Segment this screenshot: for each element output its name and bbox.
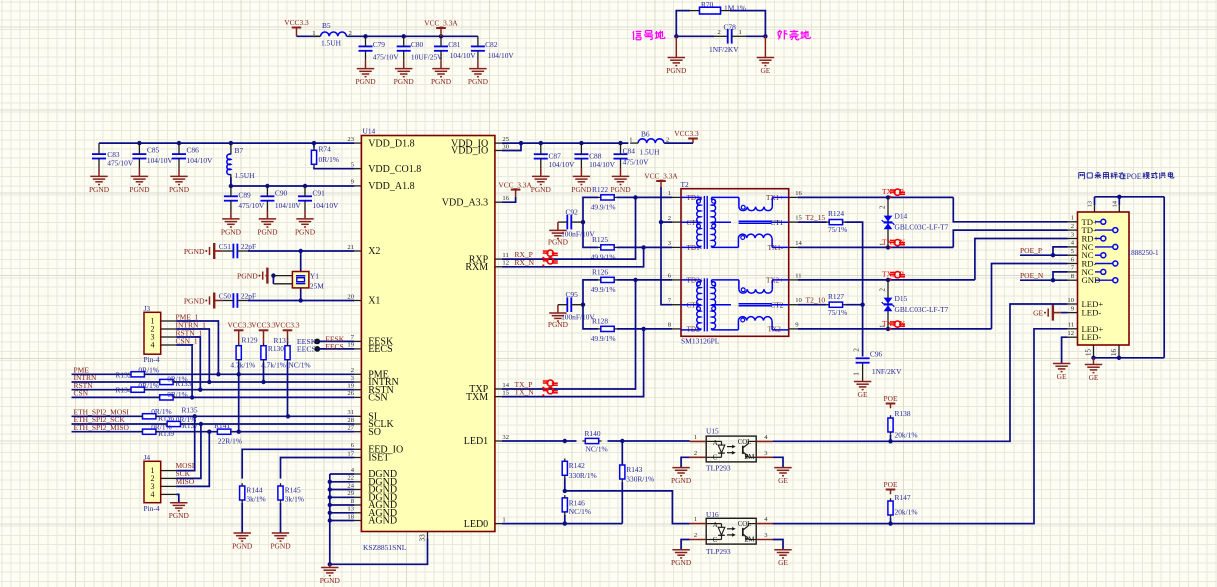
R145 value xyxy=(285,495,304,504)
svg-text:C91: C91 xyxy=(313,189,326,198)
PGND C79 label xyxy=(355,77,376,86)
C82 designator xyxy=(485,40,498,49)
svg-text:15: 15 xyxy=(1085,349,1093,357)
U14 pin name X2 xyxy=(368,246,380,257)
capacitor C95 xyxy=(558,297,583,312)
U14 pin name AGND xyxy=(368,516,397,527)
net label CSN port xyxy=(74,389,89,398)
wire CSN row xyxy=(72,396,355,398)
GE pin12 label xyxy=(1057,372,1067,381)
wire R138 to U15 pin4 wire xyxy=(890,435,892,442)
pin number 8 xyxy=(1071,273,1075,280)
J1 pin 16 stub xyxy=(1118,345,1120,358)
pin number 6 xyxy=(1071,256,1075,263)
junction gnd chain bottom node xyxy=(328,562,332,566)
svg-text:LED1: LED1 xyxy=(464,436,488,447)
GE C78 label xyxy=(760,66,770,75)
svg-text:PGND: PGND xyxy=(232,541,253,550)
net label RSTN port xyxy=(74,381,94,390)
U16 part number xyxy=(706,547,731,556)
svg-text:104/10V: 104/10V xyxy=(549,160,576,169)
pin number 26 xyxy=(347,390,354,397)
junction C89 node xyxy=(229,184,233,188)
ground GE C96 xyxy=(854,382,871,390)
svg-text:PGND: PGND xyxy=(257,227,278,236)
svg-text:PGND: PGND xyxy=(610,185,631,194)
svg-text:0R/1%: 0R/1% xyxy=(138,365,159,374)
U14 pin name TXP xyxy=(469,384,488,395)
resistor R125 xyxy=(598,245,617,250)
C83 designator xyxy=(107,150,120,159)
wire POE_N branch pin7 xyxy=(1053,272,1068,280)
C96 designator xyxy=(870,349,883,358)
J3 pin 1 stub xyxy=(161,320,176,322)
net label EECS xyxy=(325,342,343,351)
T2 part number xyxy=(681,337,720,346)
D14 designator xyxy=(895,211,908,220)
pin number 2 xyxy=(718,29,721,36)
U14 pin 26 CSN stub xyxy=(354,396,361,398)
J1 pin name LED+ xyxy=(1082,299,1104,309)
svg-text:0R/1%: 0R/1% xyxy=(167,390,188,399)
R137 value xyxy=(176,415,197,424)
R134 designator xyxy=(116,386,132,395)
ground GE C78 xyxy=(757,36,774,65)
wire J4 pin4 to PGND xyxy=(176,494,179,502)
C88 designator xyxy=(589,151,602,160)
junction D14 bottom node xyxy=(886,245,890,249)
U14 pin name VDD_A3.3 xyxy=(442,197,488,208)
svg-text:475/10V: 475/10V xyxy=(107,159,134,168)
svg-text:R127: R127 xyxy=(828,292,844,301)
svg-text:17: 17 xyxy=(347,450,354,457)
B6 value xyxy=(640,148,661,157)
T2 pin 3 stub xyxy=(672,246,681,248)
J1 pin name TD+ xyxy=(1082,217,1099,227)
U14 pin name LED0 xyxy=(464,519,488,530)
pin number 8 xyxy=(351,498,355,505)
junction gnd chain node 481.8 xyxy=(328,480,332,484)
U14 pin 5 VDD_CO1.8 stub xyxy=(354,168,361,170)
svg-text:SO: SO xyxy=(368,427,381,438)
svg-text:PGND: PGND xyxy=(169,511,190,520)
U14 pin name DGND xyxy=(368,477,397,488)
svg-text:2: 2 xyxy=(879,288,887,292)
junction CSN J3 node xyxy=(190,395,194,399)
pin number 21 xyxy=(347,244,354,251)
PGND C87 label xyxy=(531,185,552,194)
resistor R147 xyxy=(888,498,893,518)
Y1 designator xyxy=(310,272,319,281)
T2 pin name CT1 xyxy=(770,219,783,227)
junction PME J3 node xyxy=(216,372,220,376)
pin number 3 xyxy=(764,450,768,457)
wire U15 pin2 to PGND xyxy=(681,457,690,467)
junction D15 top node xyxy=(886,278,890,282)
C91 designator xyxy=(313,189,326,198)
C79 designator xyxy=(373,40,386,49)
PGND R145 label xyxy=(270,541,291,550)
wire J3 pin3 to RSTN row xyxy=(176,337,200,390)
U14 pin name DGND xyxy=(368,493,397,504)
J1 pin 4 stub xyxy=(1068,246,1078,248)
pin number 7 xyxy=(351,334,355,341)
svg-text:POE_N: POE_N xyxy=(1020,271,1044,280)
svg-text:22R/1%: 22R/1% xyxy=(218,437,242,446)
svg-text:49.9/1%: 49.9/1% xyxy=(591,285,616,294)
pin number 19 xyxy=(347,383,354,390)
PGND C90 label xyxy=(257,227,278,236)
wire pin25 rail to B6 xyxy=(502,142,629,144)
wire TX2- row D15 xyxy=(798,328,992,330)
R140 value xyxy=(586,445,608,454)
C83 value xyxy=(107,159,134,168)
wire R145 bottom xyxy=(280,503,282,533)
resistor R142 xyxy=(562,459,567,479)
VCC3.3 R129 label xyxy=(227,321,252,330)
resistor R140 xyxy=(583,438,602,443)
net label EECS noerc xyxy=(297,345,316,354)
U15 pin 3 xyxy=(756,456,772,458)
U14 pin name AGND xyxy=(368,508,397,519)
wire J1 pin10 to U15 pin4 xyxy=(773,304,1068,441)
wire SCK row xyxy=(72,423,355,425)
svg-text:T2_15: T2_15 xyxy=(806,213,826,222)
svg-text:GE: GE xyxy=(1057,372,1067,381)
ground PGND C78 xyxy=(668,36,685,65)
wire B5 pin2 to C82 node xyxy=(347,35,478,37)
wire R128 right to TD2- node xyxy=(617,328,672,330)
svg-text:75/1%: 75/1% xyxy=(828,225,847,234)
svg-text:VCC3.3: VCC3.3 xyxy=(251,321,276,330)
C92 value xyxy=(561,230,595,239)
net label EESK noerc xyxy=(297,337,317,346)
pin number 6 xyxy=(668,273,672,280)
pin number 10 xyxy=(795,297,802,304)
svg-text:C85: C85 xyxy=(147,146,160,155)
T2 pin 14 stub xyxy=(789,246,798,248)
svg-text:PGND: PGND xyxy=(394,77,415,86)
C86 designator xyxy=(187,146,200,155)
T2 pin 1 stub xyxy=(672,196,681,198)
svg-text:AGND: AGND xyxy=(368,516,397,527)
svg-text:2: 2 xyxy=(852,348,861,352)
J3 pin 4 number xyxy=(151,341,155,350)
T2 pin name CT2 xyxy=(770,302,783,310)
power port POE R147 xyxy=(886,490,896,495)
ground PGND U14 xyxy=(321,564,338,575)
T2 winding channel 2 xyxy=(681,278,789,331)
inductor B6 xyxy=(630,139,672,143)
junction chassis gnd node xyxy=(763,34,767,38)
J1 contact 2 xyxy=(1095,228,1118,233)
wire J3 pin2 to INTRN row xyxy=(176,329,209,382)
title POE text xyxy=(1127,172,1142,181)
pin number 14 xyxy=(795,240,802,247)
capacitor C51 xyxy=(222,244,248,259)
ground PGND C89 xyxy=(222,211,239,228)
power port VCC3.3 R131 xyxy=(283,330,293,343)
R132 value xyxy=(138,365,159,374)
C90 designator xyxy=(275,189,288,198)
svg-text:GE: GE xyxy=(760,66,770,75)
C80 value xyxy=(411,53,443,62)
U16 pin 1 xyxy=(690,523,706,525)
Y1 case pin top xyxy=(273,275,292,277)
J1 pin 2 stub xyxy=(1068,229,1078,231)
U14 pin 29 DGND stub xyxy=(354,496,361,498)
svg-text:49.9/1%: 49.9/1% xyxy=(591,202,616,211)
svg-text:C86: C86 xyxy=(187,146,200,155)
junction C87 node xyxy=(539,141,543,145)
capacitor C88 xyxy=(574,143,588,168)
svg-text:R124: R124 xyxy=(828,209,844,218)
J1 pin 10 stub xyxy=(1068,303,1078,305)
junction MOSI R131 node xyxy=(286,414,290,418)
pin number 3 xyxy=(351,375,355,382)
U16 pin 3 xyxy=(756,539,772,541)
svg-text:1: 1 xyxy=(852,372,861,376)
D15 pin 2 number xyxy=(879,288,887,292)
power port POE R138 xyxy=(886,404,896,409)
J1 pin 1 stub xyxy=(1068,221,1078,223)
U14 pin name EESK xyxy=(368,337,394,348)
T2 pin name TX2+ xyxy=(766,277,783,285)
wire R129 down xyxy=(238,363,240,432)
svg-text:13: 13 xyxy=(1087,200,1094,207)
svg-text:TX1+: TX1+ xyxy=(766,194,783,202)
net label PME port xyxy=(74,366,90,375)
power port VCC3.3 R129 xyxy=(234,330,244,343)
svg-text:3k/1%: 3k/1% xyxy=(246,495,265,504)
U15 pin 2 xyxy=(690,456,706,458)
pin number 29 xyxy=(347,490,354,497)
C80 designator xyxy=(411,40,424,49)
U15 part number xyxy=(706,464,731,473)
wire EED_IO to R144 xyxy=(242,449,354,478)
pin number 2 xyxy=(694,450,697,457)
differential pair directive TX1_N xyxy=(889,240,905,249)
pin number 32 xyxy=(502,434,509,441)
PGND C88 label xyxy=(571,185,592,194)
J3 pin 1 number xyxy=(151,317,155,326)
C87 value xyxy=(549,160,576,169)
U16 label C xyxy=(713,537,718,544)
resistor R131 xyxy=(285,343,290,363)
svg-text:EM: EM xyxy=(744,536,754,543)
svg-text:14: 14 xyxy=(1111,200,1118,207)
svg-text:NC/1%: NC/1% xyxy=(586,445,608,454)
GE U16 label xyxy=(778,558,788,567)
J3 pin 3 number xyxy=(151,333,155,342)
svg-text:2: 2 xyxy=(351,367,354,374)
wire R126 right to TD2+ node xyxy=(617,279,672,281)
R70 designator xyxy=(701,0,714,9)
U14 pin 23 VDD_D1.8 stub xyxy=(354,142,361,144)
R74 value xyxy=(319,155,340,164)
PGND C85 label xyxy=(129,185,150,194)
pin number 8 xyxy=(668,322,672,329)
capacitor C92 xyxy=(558,215,583,230)
pin number 3 xyxy=(1071,231,1075,238)
pin number 10 xyxy=(1067,297,1074,304)
pin number 1 xyxy=(694,434,697,441)
junction gnd chain node 505.0 xyxy=(328,503,332,507)
svg-text:VCC3.3: VCC3.3 xyxy=(674,129,699,138)
pin number 2 xyxy=(351,367,354,374)
U14 pin 17 ISET stub xyxy=(354,457,361,459)
svg-text:28: 28 xyxy=(347,417,354,424)
svg-text:104/10V: 104/10V xyxy=(187,156,214,165)
svg-text:R74: R74 xyxy=(319,145,332,154)
D14 pin 1 number xyxy=(879,242,887,246)
svg-text:TLP293: TLP293 xyxy=(706,464,731,473)
wire J4 pin1 to SI row xyxy=(176,416,195,470)
T2 pin name TD1- xyxy=(687,244,703,252)
svg-text:PGND: PGND xyxy=(184,297,205,306)
svg-text:VCC3.3: VCC3.3 xyxy=(275,321,300,330)
svg-text:PGND: PGND xyxy=(468,77,489,86)
svg-text:1.5UH: 1.5UH xyxy=(235,171,256,180)
svg-text:104/10V: 104/10V xyxy=(313,201,340,210)
svg-text:C89: C89 xyxy=(238,190,251,199)
U14 pin name DGND xyxy=(368,469,397,480)
power port VCC_3.3A T2 xyxy=(656,181,666,187)
C91 value xyxy=(313,201,340,210)
svg-text:A: A xyxy=(713,522,718,529)
svg-text:30: 30 xyxy=(502,143,509,150)
svg-text:C81: C81 xyxy=(448,40,461,49)
net label TX_N xyxy=(515,388,535,397)
resistor R141 xyxy=(215,429,234,434)
R140 designator xyxy=(585,429,601,438)
pin number 1 xyxy=(629,137,632,144)
svg-text:EECS: EECS xyxy=(325,342,343,351)
svg-text:49.9/1%: 49.9/1% xyxy=(591,334,616,343)
pin number 2 xyxy=(349,30,352,37)
U14 pin name CSN xyxy=(368,393,387,404)
PGND C86 label xyxy=(169,185,190,194)
wire DGND chain vertical xyxy=(329,474,331,564)
Y1 value xyxy=(310,282,324,291)
svg-text:2: 2 xyxy=(879,205,887,209)
wire POE_P wire xyxy=(1020,254,1068,256)
svg-text:TXM: TXM xyxy=(466,392,488,403)
wire J4 pin2 to SCLK row xyxy=(176,424,201,478)
capacitor C91 xyxy=(298,186,312,211)
T2 pin 6 stub xyxy=(672,279,681,281)
J4 pin 4 number xyxy=(151,490,155,499)
junction SCK J4 node xyxy=(199,422,203,426)
svg-text:R146: R146 xyxy=(569,499,585,508)
junction D14 top node xyxy=(886,195,890,199)
C86 value xyxy=(187,156,214,165)
wire RXM to TD1- tap xyxy=(502,247,644,266)
D15 pin 1 number xyxy=(879,324,887,328)
net label RX_N xyxy=(515,258,535,267)
J4 pin 3 number xyxy=(151,482,155,491)
svg-text:475/10V: 475/10V xyxy=(238,201,265,210)
svg-text:2: 2 xyxy=(668,215,671,222)
T2 pin 16 stub xyxy=(789,196,798,198)
resistor R137 xyxy=(164,421,183,426)
svg-text:C51: C51 xyxy=(219,242,232,251)
U14 pin 33 stub xyxy=(427,532,429,539)
ground GE U15 xyxy=(774,468,791,476)
R127 value xyxy=(828,308,847,317)
capacitor C90 xyxy=(260,186,274,211)
svg-text:PGND: PGND xyxy=(666,66,687,75)
R125 designator xyxy=(592,235,608,244)
J1 pin 7 stub xyxy=(1068,271,1078,273)
svg-text:15: 15 xyxy=(795,215,802,222)
U14 pin name SI xyxy=(368,412,377,423)
R70 value xyxy=(724,4,746,13)
junction R146 node xyxy=(563,521,567,525)
U16 pin 2 xyxy=(690,539,706,541)
ground PGND R145 xyxy=(272,533,289,541)
pin number 1 xyxy=(694,516,697,523)
svg-text:PGND: PGND xyxy=(671,476,692,485)
svg-text:POE_P: POE_P xyxy=(1020,246,1042,255)
J1 pin name TD- xyxy=(1082,225,1097,235)
wire POE_P branch pin4 xyxy=(1053,247,1068,255)
svg-text:R134: R134 xyxy=(116,386,132,395)
VCC_3.3A top label xyxy=(424,19,458,28)
U14 pin 18 AGND stub xyxy=(354,520,361,522)
ground PGND J4 xyxy=(170,503,187,511)
C96 pin 2 number xyxy=(852,348,861,352)
svg-text:COL: COL xyxy=(738,521,752,528)
svg-text:C80: C80 xyxy=(411,40,424,49)
C84 value xyxy=(623,158,650,167)
wire gnd pin row 497.3 xyxy=(330,496,355,498)
C95 value xyxy=(561,312,595,321)
U14 pin 24 DGND stub xyxy=(354,489,361,491)
junction D15 bottom node xyxy=(886,327,890,331)
J3 pin 4 stub xyxy=(161,344,176,346)
wire R142 bottom xyxy=(564,478,566,491)
pin number 1 xyxy=(668,190,671,197)
PGND C80 label xyxy=(394,77,415,86)
T2 pin name TD2- xyxy=(687,326,703,334)
svg-text:ETH_SPI2_MISO: ETH_SPI2_MISO xyxy=(74,423,130,432)
pin number 4 xyxy=(764,516,768,523)
R144 value xyxy=(246,495,265,504)
T2 designator xyxy=(681,180,690,189)
svg-text:23: 23 xyxy=(347,136,354,143)
U14 pin 14 TXP stub xyxy=(495,388,502,390)
svg-text:2: 2 xyxy=(718,29,721,36)
svg-text:VCC_3.3A: VCC_3.3A xyxy=(644,172,678,181)
svg-text:19: 19 xyxy=(347,342,354,349)
J1 designator xyxy=(1124,213,1131,222)
U14 pin 32 LED1 stub xyxy=(495,440,502,442)
D15 designator xyxy=(895,294,908,303)
U14 pin 9 VDD_A1.8 stub xyxy=(354,185,361,187)
svg-text:POE: POE xyxy=(884,394,898,403)
U14 pin name RXM xyxy=(465,262,488,273)
U14 pin name SO xyxy=(368,427,381,438)
pin number 13 xyxy=(347,506,354,513)
svg-text:LED0: LED0 xyxy=(464,519,488,530)
svg-text:0R/1%: 0R/1% xyxy=(167,374,188,383)
svg-text:R130: R130 xyxy=(268,344,284,353)
svg-text:330R/1%: 330R/1% xyxy=(626,475,654,484)
junction C96 rail node xyxy=(860,303,864,307)
capacitor C83 xyxy=(92,143,106,168)
R134 value xyxy=(138,381,159,390)
